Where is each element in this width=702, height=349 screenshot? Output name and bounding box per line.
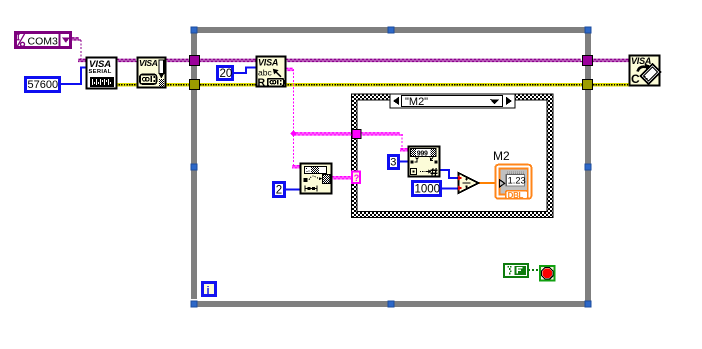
wire: error property node to left tunnel <box>165 83 191 86</box>
while loop frame <box>191 27 591 307</box>
junction: string wire branch <box>290 130 296 136</box>
wire: error left tunnel to VISA Read <box>200 83 257 86</box>
1000 numeric constant <box>413 182 441 196</box>
svg-text:VISA: VISA <box>631 56 651 66</box>
VISA Close icon <box>630 56 661 87</box>
wire: string branch to case tunnel <box>295 133 353 135</box>
svg-text:20: 20 <box>220 68 233 80</box>
svg-text:999: 999 <box>417 150 428 157</box>
tunnel: VISA purple on right loop border <box>583 56 593 66</box>
wire: VISA purple serial-config to property node <box>116 59 138 61</box>
VISA Read icon <box>257 57 286 89</box>
loop condition stop terminal <box>540 266 555 281</box>
tunnel: error on right loop border <box>583 80 593 90</box>
wire: VISA purple right tunnel to VISA Close <box>593 59 630 61</box>
wire: VISA purple tunnel to VISA Read <box>200 59 257 61</box>
svg-text:"M2": "M2" <box>405 96 428 108</box>
2 numeric constant <box>274 183 285 197</box>
wire: baud 57600 blue <box>60 68 87 85</box>
svg-text:1000: 1000 <box>415 184 441 196</box>
57600 numeric constant <box>26 78 60 92</box>
wire: VISA purple property node to loop tunnel <box>165 59 191 61</box>
svg-text:M2: M2 <box>493 149 510 163</box>
wire: error VISA Read to right tunnel <box>285 83 584 86</box>
boolean stop terminal <box>504 264 528 277</box>
tunnel: VISA purple on left loop border <box>190 56 200 66</box>
svg-text:2: 2 <box>276 185 282 197</box>
svg-text:R: R <box>258 77 266 89</box>
wire: 1000 blue to divide bottom input <box>442 188 459 190</box>
wire: VISA purple VISA Read to right tunnel <box>285 59 584 61</box>
COM3 VISA resource constant <box>16 33 71 48</box>
wire: error serial-config to property node <box>116 83 138 86</box>
svg-text:C: C <box>631 72 640 86</box>
wire: string out of VISA Read (squiggle then dotted down) <box>285 68 294 135</box>
svg-text:VISA: VISA <box>139 58 158 68</box>
VISA Bytes at Serial Port property node icon <box>138 58 166 88</box>
svg-text:DBL: DBL <box>508 191 524 200</box>
wire: byte count 20 blue <box>233 68 257 74</box>
Scan from String icon <box>409 147 440 177</box>
svg-text:1.23: 1.23 <box>508 176 526 186</box>
tunnel: string on case left border <box>352 130 361 139</box>
Match Pattern icon <box>301 164 332 194</box>
case selector terminal ? <box>352 172 360 184</box>
divide function <box>458 173 478 193</box>
20 numeric constant <box>218 67 233 81</box>
wire: offset 2 blue to Match Pattern <box>285 189 301 191</box>
wire: divide result orange to M2 indicator <box>478 182 496 184</box>
wire: match substring to case selector terminal <box>331 177 352 179</box>
svg-text:i: i <box>207 285 210 297</box>
VISA Configure Serial Port icon <box>87 58 117 89</box>
case selector label <box>390 94 515 108</box>
wire: string tunnel to scan icon <box>360 133 409 151</box>
svg-text:COM3: COM3 <box>28 35 58 47</box>
svg-text:3: 3 <box>390 157 396 169</box>
tunnel: error on left loop border <box>190 80 200 90</box>
wire: string down to Match Pattern <box>292 135 301 168</box>
wire: error right tunnel to VISA Close <box>593 83 630 86</box>
wire: VISA resource COM3 out (squiggle right, dotted down, into serial config) <box>71 38 87 62</box>
svg-text:57600: 57600 <box>28 79 59 91</box>
loop iteration terminal i <box>203 283 216 297</box>
wire: boolean dotted green to loop condition <box>528 269 540 271</box>
wire: 3 blue to scan icon <box>399 161 409 163</box>
case structure frame <box>352 94 553 217</box>
svg-text:VISA: VISA <box>258 58 278 68</box>
svg-text:?: ? <box>354 173 360 183</box>
3 numeric constant <box>389 156 399 169</box>
M2 DBL indicator <box>495 165 531 200</box>
while loop resize handles <box>191 27 591 307</box>
svg-text:SERIAL: SERIAL <box>89 69 112 75</box>
wire: scan output to divide top input <box>439 170 459 178</box>
